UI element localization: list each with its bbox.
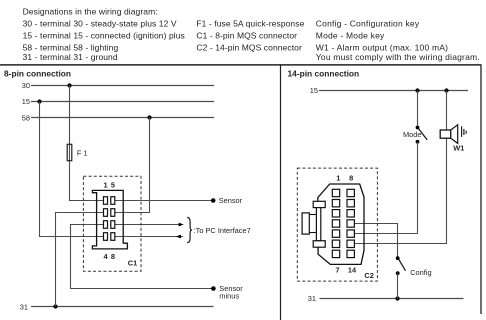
svg-text:1: 1: [336, 173, 340, 182]
wire 15 to mode switch: [417, 91, 419, 128]
wire fuse to pin1: [70, 145, 105, 201]
wire pin11 to config switch: [355, 224, 398, 259]
connector C2 dashed box: [297, 168, 377, 281]
config switch lower contact: [396, 271, 400, 275]
C1 pin 7: [111, 221, 115, 229]
wire config to 31: [397, 273, 399, 298]
svg-text:14-pin connection: 14-pin connection: [288, 69, 360, 79]
svg-text:minus: minus: [219, 291, 239, 300]
C1 pin 4: [104, 233, 108, 241]
junction dot 31/pin2: [53, 304, 57, 308]
junction dot 58: [147, 115, 151, 119]
wire 15 to pin4: [40, 102, 105, 237]
svg-text::To PC Interface7: :To PC Interface7: [194, 226, 251, 235]
wire pin7 to PC interface TX: [113, 224, 179, 226]
C1 pin 5: [111, 197, 115, 205]
svg-text:31 - terminal 31 - ground: 31 - terminal 31 - ground: [23, 52, 118, 62]
legend text block: [23, 7, 480, 63]
arrowhead RX: [176, 235, 181, 239]
svg-text:1: 1: [103, 180, 107, 189]
svg-text:Sensor: Sensor: [219, 196, 243, 205]
wire pin3 to sensor minus: [71, 225, 214, 289]
C2 latch bottom cap: [313, 241, 325, 248]
svg-text:15: 15: [22, 97, 30, 106]
wire 15 rail right: [319, 90, 468, 92]
C1 pin 3: [104, 221, 108, 229]
wire 31 rail: [31, 306, 214, 308]
svg-text:W1: W1: [453, 144, 464, 153]
panel divider: [280, 65, 282, 320]
svg-text:W1 - Alarm output (max. 100 mA: W1 - Alarm output (max. 100 mA): [316, 42, 448, 52]
junction dot 15: [37, 99, 41, 103]
C1 pin 1: [104, 197, 108, 205]
junction dot 30/F1: [67, 83, 71, 87]
svg-text:C2 - 14-pin MQS connector: C2 - 14-pin MQS connector: [196, 42, 302, 52]
speaker W1 horn: [451, 125, 458, 144]
wire 31 to pin2: [56, 213, 105, 307]
config switch upper contact: [396, 256, 400, 260]
svg-text:8-pin connection: 8-pin connection: [4, 69, 71, 79]
header divider line: [0, 64, 482, 66]
svg-text:30 - terminal 30 - steady-stat: 30 - terminal 30 - steady-state plus 12 …: [23, 18, 177, 28]
right border: [480, 65, 482, 314]
svg-text:You must comply with the wirin: You must comply with the wiring diagram.: [316, 52, 480, 62]
wire pin5 to sensor: [113, 200, 213, 202]
C2 latch link top: [309, 214, 316, 216]
wire 30 to fuse: [69, 86, 71, 145]
C2 latch left block: [302, 213, 309, 234]
connector C1 body: [92, 190, 127, 249]
svg-text:15 - terminal 15 - connected (: 15 - terminal 15 - connected (ignition) …: [23, 30, 185, 40]
svg-text:8: 8: [111, 252, 115, 261]
wire 30 rail: [31, 85, 214, 87]
svg-text:31: 31: [20, 303, 28, 312]
svg-text:14: 14: [348, 266, 357, 275]
svg-text:F1 - fuse 5A quick-response: F1 - fuse 5A quick-response: [196, 18, 304, 28]
junction dot config/31: [395, 296, 399, 300]
terminal dot sensor minus: [211, 286, 216, 291]
C2 pins left column: [332, 189, 339, 196]
svg-text:31: 31: [308, 294, 316, 303]
svg-text:Mode - Mode key: Mode - Mode key: [316, 30, 385, 40]
connector C2 body: [318, 184, 364, 264]
svg-text:Mode: Mode: [403, 130, 422, 139]
C2 latch bar: [316, 208, 320, 241]
svg-text:C1 - 8-pin MQS connector: C1 - 8-pin MQS connector: [196, 30, 297, 40]
svg-text:7: 7: [335, 266, 339, 275]
wire 15 rail: [31, 101, 214, 103]
wire pin8 to PC interface RX: [113, 236, 183, 238]
config switch blade: [399, 259, 406, 270]
connector C1 dashed box: [83, 176, 141, 271]
C2 pins right column: [347, 189, 354, 196]
svg-text:15: 15: [310, 86, 318, 95]
svg-text:Designations in the wiring dia: Designations in the wiring diagram:: [23, 7, 158, 17]
svg-text:8: 8: [349, 173, 353, 182]
brace PC interface: [187, 217, 192, 242]
svg-text:58: 58: [22, 113, 30, 122]
wire mode to pin12: [355, 142, 418, 234]
svg-text:C1: C1: [128, 258, 137, 267]
svg-text:C2: C2: [364, 271, 373, 280]
svg-text:5: 5: [111, 180, 115, 189]
junction dot W1: [444, 88, 448, 92]
wire 15 to W1 to pin13: [355, 91, 447, 244]
wire 31 rail right: [320, 298, 464, 300]
svg-text:Config - Configuration key: Config - Configuration key: [316, 18, 420, 28]
mode switch blade: [418, 129, 427, 140]
C2 latch top cap: [313, 201, 325, 207]
svg-text:Config: Config: [410, 268, 431, 277]
svg-text:F 1: F 1: [77, 149, 88, 158]
W1 sound waves: [461, 126, 463, 137]
speaker W1 body: [440, 130, 451, 138]
C1 pin 8: [111, 233, 115, 241]
svg-text:30: 30: [22, 81, 30, 90]
arrowhead TX: [179, 223, 184, 227]
C1 pin 2: [104, 209, 108, 217]
C2 latch link bottom: [309, 232, 316, 234]
mode switch lower contact: [416, 140, 420, 144]
wire 58 to pin6: [113, 118, 150, 213]
wire 58 rail: [31, 117, 214, 119]
fuse F1: [67, 144, 72, 160]
junction dot mode: [415, 88, 419, 92]
svg-text:58 - terminal 58 - lighting: 58 - terminal 58 - lighting: [23, 42, 119, 52]
C1 pin 6: [111, 209, 115, 217]
mode switch upper contact: [416, 126, 420, 130]
terminal dot sensor: [211, 198, 216, 203]
